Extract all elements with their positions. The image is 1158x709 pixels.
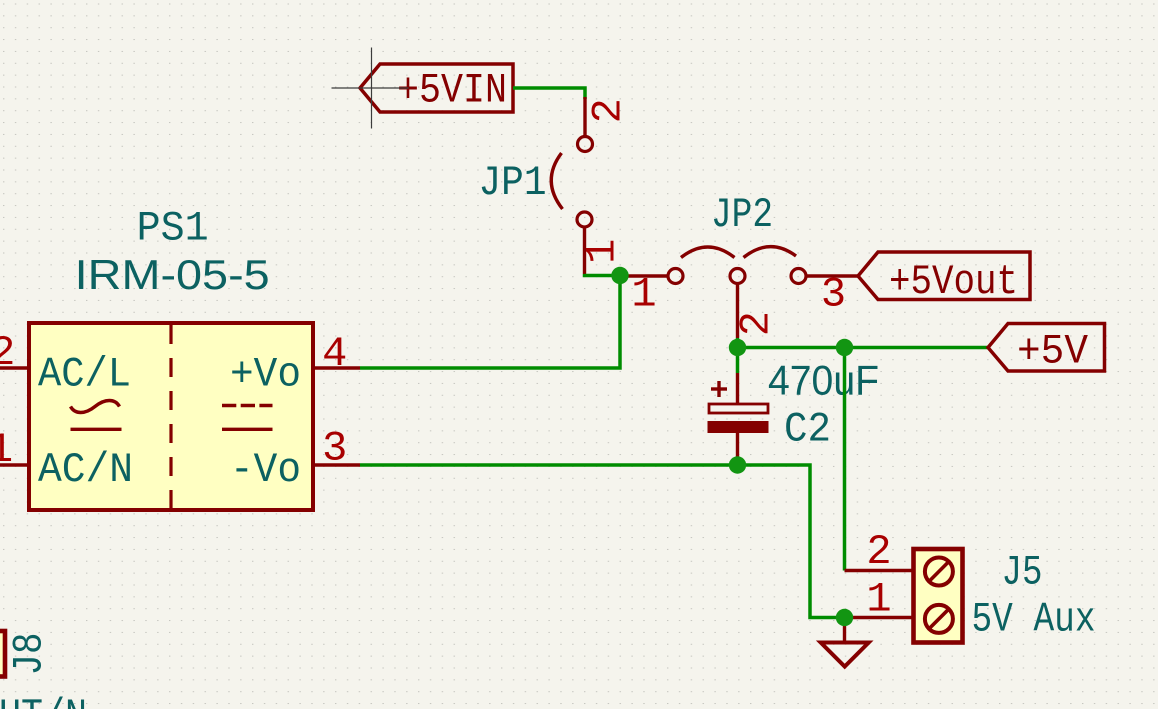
wire +5VIN to JP1 pin 2 xyxy=(513,88,585,99)
JP1 pin 2 xyxy=(585,97,633,137)
svg-text:+5VIN: +5VIN xyxy=(397,67,507,115)
svg-text:3: 3 xyxy=(821,271,846,319)
JP1 pin 1 xyxy=(579,227,627,274)
svg-text:+5V: +5V xyxy=(1017,328,1088,376)
wire -Vo net xyxy=(360,465,845,618)
svg-text:OUT/N: OUT/N xyxy=(0,692,87,709)
ground xyxy=(821,618,869,667)
connector J5 body xyxy=(914,549,963,643)
cursor crosshair xyxy=(332,48,409,129)
svg-text:2: 2 xyxy=(585,98,633,123)
PS1 pin 3 -Vo xyxy=(230,425,360,495)
svg-text:+5Vout: +5Vout xyxy=(889,258,1018,306)
JP2 pin 1 xyxy=(620,271,668,319)
svg-text:JP2: JP2 xyxy=(711,191,773,239)
PS1 pin 1 AC/N xyxy=(0,426,133,494)
wire +5V branch down to J5 pin 2 xyxy=(843,348,847,571)
svg-text:1: 1 xyxy=(579,239,627,264)
power module PS1 body xyxy=(29,323,313,510)
capacitor C2 xyxy=(708,348,768,464)
junction C2 bottom node xyxy=(729,456,746,473)
JP2 reference label xyxy=(711,191,773,239)
svg-text:+Vo: +Vo xyxy=(230,351,301,399)
svg-text:JP1: JP1 xyxy=(479,159,547,207)
wire junction to +Vo xyxy=(360,276,620,369)
JP1 reference label xyxy=(479,159,547,207)
jumper JP1 xyxy=(551,137,592,228)
junction +5V branch to J5 xyxy=(836,339,853,356)
jumper JP2 xyxy=(668,247,806,284)
J5 reference label xyxy=(1002,549,1043,597)
svg-text:1: 1 xyxy=(631,271,656,319)
C2 value 470uF xyxy=(768,357,879,404)
PS1 value IRM-05-5 xyxy=(75,251,270,298)
J5 value 5V Aux xyxy=(972,596,1096,644)
svg-text:2: 2 xyxy=(0,329,15,377)
svg-text:C2: C2 xyxy=(784,406,831,454)
PS1 pin 2 AC/L xyxy=(0,329,131,399)
global label +5V xyxy=(988,324,1105,376)
svg-text:PS1: PS1 xyxy=(137,205,209,253)
wire JP2 pin 2 down to +5V net xyxy=(736,338,740,348)
svg-text:1: 1 xyxy=(0,426,13,474)
PS1 reference label xyxy=(137,205,209,253)
svg-text:470uF: 470uF xyxy=(768,357,879,404)
svg-text:J8: J8 xyxy=(6,633,54,676)
junction GND node xyxy=(836,609,853,626)
svg-text:2: 2 xyxy=(866,528,891,576)
svg-text:2: 2 xyxy=(732,311,780,336)
svg-text:1: 1 xyxy=(866,576,891,624)
svg-text:4: 4 xyxy=(322,330,347,378)
JP2 pin 3 xyxy=(806,271,858,319)
JP2 pin 2 xyxy=(732,284,780,339)
wire JP1 pin 1 to junction xyxy=(585,274,621,276)
svg-text:AC/L: AC/L xyxy=(38,351,131,399)
C2 reference label xyxy=(784,406,831,454)
PS1 pin 4 +Vo xyxy=(230,330,360,399)
svg-text:3: 3 xyxy=(322,425,347,473)
svg-text:J5: J5 xyxy=(1002,549,1043,597)
svg-text:5V Aux: 5V Aux xyxy=(972,596,1096,644)
svg-text:AC/N: AC/N xyxy=(38,446,133,494)
J5 pin 2 xyxy=(845,528,913,576)
junction C2 top node xyxy=(729,339,746,356)
connector J8 partial body xyxy=(0,631,5,677)
global label +5Vout xyxy=(858,252,1030,306)
global label +5VIN xyxy=(360,64,513,115)
J8 reference label xyxy=(6,633,54,676)
junction node A xyxy=(611,267,628,284)
wire +5V net horizontal xyxy=(738,346,989,350)
svg-text:-Vo: -Vo xyxy=(230,446,301,494)
J5 pin 1 xyxy=(845,576,913,624)
net label OUT/N partial xyxy=(0,692,87,709)
svg-text:IRM-05-5: IRM-05-5 xyxy=(75,251,270,298)
